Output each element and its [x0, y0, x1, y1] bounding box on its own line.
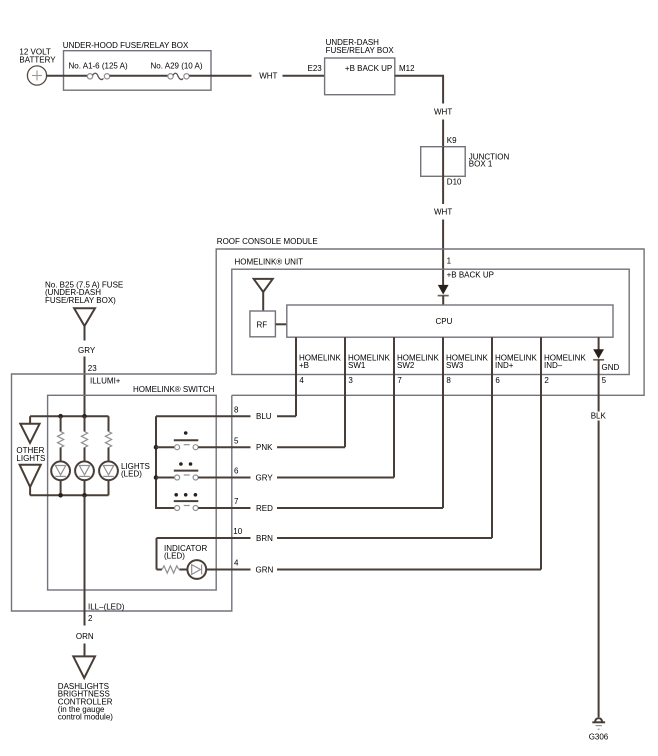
ground G306: [589, 718, 609, 741]
wire BLK to ground: [591, 360, 607, 717]
fuse No. B25 triangle: [45, 280, 123, 326]
CPU pin numbers 4 3 7 8 6 2 5: [299, 376, 606, 385]
svg-text:4: 4: [299, 376, 304, 385]
svg-text:6: 6: [234, 467, 239, 476]
svg-text:+B: +B: [299, 361, 309, 370]
svg-text:HOMELINK® SWITCH: HOMELINK® SWITCH: [133, 385, 215, 394]
svg-text:RF: RF: [257, 321, 268, 330]
svg-text:GRN: GRN: [256, 565, 274, 574]
svg-text:D10: D10: [447, 177, 462, 186]
svg-text:FUSE/RELAY BOX: FUSE/RELAY BOX: [326, 46, 395, 55]
svg-text:SW1: SW1: [348, 361, 366, 370]
svg-text:BLK: BLK: [591, 411, 607, 420]
svg-text:BOX 1: BOX 1: [469, 160, 493, 169]
svg-text:2: 2: [544, 376, 549, 385]
svg-text:ILLUMI+: ILLUMI+: [90, 377, 121, 386]
svg-text:SW2: SW2: [397, 361, 415, 370]
wire GRY pin 6: [198, 467, 394, 483]
svg-text:CPU: CPU: [436, 317, 453, 326]
svg-text:GRY: GRY: [256, 474, 274, 483]
svg-text:E23: E23: [308, 64, 323, 73]
svg-text:BLU: BLU: [256, 412, 272, 421]
svg-text:5: 5: [234, 436, 239, 445]
wire GRN pin 4: [206, 559, 541, 575]
wire battery to fuse A1-6: [46, 75, 87, 77]
other lights triangle 1: [16, 416, 45, 463]
wire ILL-(LED) ORN pin 2: [76, 495, 125, 656]
CPU U1: [287, 305, 613, 337]
under-hood fuse/relay box: [63, 41, 211, 90]
RF unit U-RF: [250, 311, 287, 337]
svg-text:K9: K9: [447, 136, 457, 145]
wire M12 down to junction box (WHT): [395, 76, 453, 147]
roof console module box: [216, 237, 644, 395]
svg-text:1: 1: [447, 256, 452, 265]
CPU pin labels: [299, 353, 620, 372]
svg-text:+B BACK UP: +B BACK UP: [345, 64, 392, 73]
wire fuse A1-6 to fuse A29: [110, 75, 168, 77]
label LIGHTS (LED): [121, 462, 150, 479]
svg-text:SW3: SW3: [446, 361, 464, 370]
battery 12 VOLT: [19, 48, 56, 86]
homelink unit box: [232, 258, 629, 375]
antenna: [254, 279, 273, 311]
diode D1 +B backup: [438, 285, 449, 305]
wire PNK pin 5: [198, 436, 345, 452]
resistor R3: [105, 416, 111, 461]
svg-text:2: 2: [88, 614, 93, 623]
svg-text:WHT: WHT: [259, 71, 277, 80]
svg-text:8: 8: [446, 376, 451, 385]
svg-text:8: 8: [234, 405, 239, 414]
other lights triangle 2: [20, 465, 41, 496]
fuse No. A1-6 (125 A): [69, 62, 128, 80]
svg-text:RED: RED: [256, 504, 273, 513]
svg-text:IND–: IND–: [544, 361, 563, 370]
svg-text:+B BACK UP: +B BACK UP: [447, 270, 494, 279]
svg-text:No. A29 (10 A): No. A29 (10 A): [151, 62, 203, 71]
LED 2: [75, 461, 94, 495]
svg-text:(LED): (LED): [121, 470, 142, 479]
wire WHT to under-dash box: [189, 71, 324, 80]
switch S1 (button 1): [174, 431, 199, 450]
svg-text:BATTERY: BATTERY: [19, 55, 56, 64]
LED 1: [51, 461, 70, 495]
wire BRN pin 10: [157, 527, 493, 543]
svg-text:control module): control module): [58, 713, 113, 722]
svg-text:7: 7: [234, 497, 239, 506]
svg-text:HOMELINK® UNIT: HOMELINK® UNIT: [235, 258, 304, 267]
pin stub HOMELINK +B (4): [295, 337, 297, 416]
svg-text:(LED): (LED): [164, 552, 185, 561]
svg-text:WHT: WHT: [434, 108, 452, 117]
svg-text:ORN: ORN: [76, 632, 94, 641]
svg-text:UNDER-HOOD FUSE/RELAY BOX: UNDER-HOOD FUSE/RELAY BOX: [63, 41, 189, 50]
dashlights brightness controller triangle: [58, 656, 113, 721]
svg-text:No. A1-6 (125 A): No. A1-6 (125 A): [69, 62, 128, 71]
indicator LED D3: [187, 560, 206, 579]
pin stub HOMELINK SW1 (3): [344, 337, 346, 447]
wire GRY pin 23: [78, 326, 97, 416]
wire BLU pin 8: [156, 405, 296, 421]
LED 3: [99, 461, 118, 495]
svg-text:PNK: PNK: [256, 443, 273, 452]
pin stub HOMELINK SW2 (7): [393, 337, 395, 477]
homelink switch box: [48, 385, 217, 590]
svg-text:IND+: IND+: [495, 361, 514, 370]
svg-text:G306: G306: [589, 733, 609, 742]
svg-text:ILL–(LED): ILL–(LED): [88, 602, 125, 611]
wire RED pin 7: [198, 497, 443, 513]
svg-text:10: 10: [233, 527, 242, 536]
svg-text:4: 4: [234, 559, 239, 568]
junction box 1: [421, 147, 510, 177]
diode D2 GND: [593, 337, 604, 360]
pin stub HOMELINK IND+ (6): [491, 337, 493, 538]
svg-text:23: 23: [88, 364, 97, 373]
bottom bus node: [30, 493, 108, 498]
resistor R1: [57, 416, 63, 461]
svg-text:WHT: WHT: [434, 208, 452, 217]
pin stub HOMELINK SW3 (8): [442, 337, 444, 508]
svg-text:GRY: GRY: [78, 346, 96, 355]
svg-text:5: 5: [602, 376, 607, 385]
under-dash fuse/relay box: [325, 38, 395, 94]
svg-text:LIGHTS: LIGHTS: [16, 454, 45, 463]
top bus node: [30, 414, 108, 419]
indicator resistor R4: [157, 538, 208, 573]
svg-text:7: 7: [397, 376, 402, 385]
svg-text:FUSE/RELAY BOX): FUSE/RELAY BOX): [45, 296, 116, 305]
left illumination box: [12, 374, 232, 611]
svg-text:BRN: BRN: [256, 534, 273, 543]
svg-text:6: 6: [495, 376, 500, 385]
svg-text:ROOF CONSOLE MODULE: ROOF CONSOLE MODULE: [217, 237, 318, 246]
resistor R2: [81, 416, 87, 461]
switch S3 (button 3): [174, 493, 199, 511]
switch feed bus: [154, 416, 175, 508]
wire D10 down to homelink unit (WHT): [434, 176, 452, 285]
pin stub HOMELINK IND- (2): [540, 337, 542, 569]
svg-text:3: 3: [348, 376, 353, 385]
switch S2 (button 2): [174, 462, 199, 480]
svg-text:GND: GND: [602, 363, 620, 372]
fuse No. A29 (10 A): [151, 62, 203, 80]
svg-text:M12: M12: [399, 64, 415, 73]
